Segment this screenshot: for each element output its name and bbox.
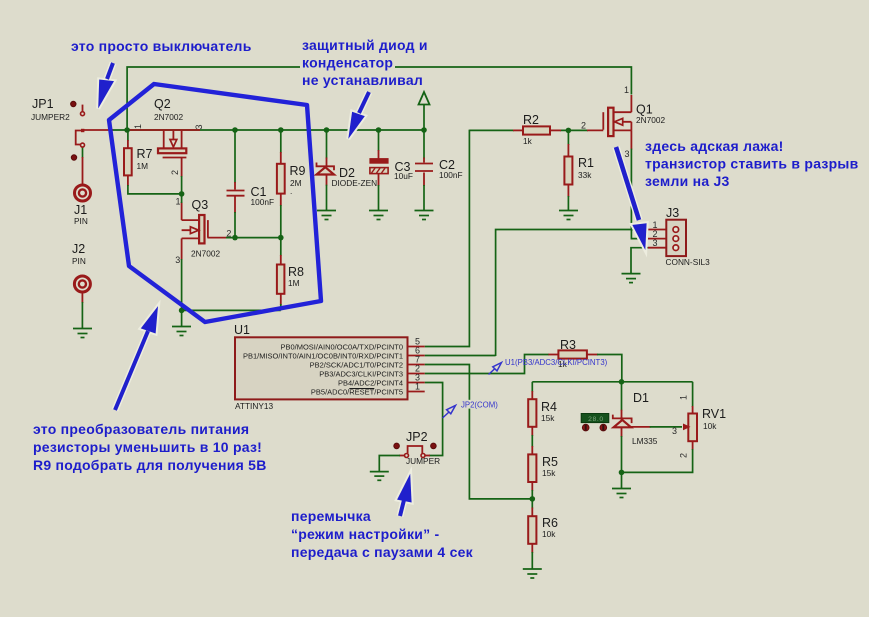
- resistor R5: [528, 454, 536, 482]
- wire: PB2 net down to R5/R6 node: [425, 365, 532, 499]
- wire: PB4 net to JP2: [425, 383, 443, 456]
- svg-text:R2: R2: [523, 113, 539, 127]
- svg-text:JUMPER: JUMPER: [406, 456, 440, 466]
- wire: R9 bottom to R8 top: [280, 194, 282, 206]
- svg-text:3: 3: [672, 426, 677, 436]
- transistor Q1 (2N7002, vertical): [603, 108, 631, 136]
- ground (C3): [369, 211, 388, 220]
- wire: bus from R2 right to Q1 gate: [560, 129, 588, 131]
- svg-text:защитный диод и: защитный диод и: [302, 37, 428, 53]
- svg-text:конденсатор: конденсатор: [302, 55, 393, 71]
- svg-text:1: 1: [679, 395, 689, 400]
- ground (J2): [73, 329, 92, 338]
- callout arrow (JP2 COM): [443, 405, 456, 418]
- wire: R2 left stub: [513, 129, 523, 131]
- wire: R1 top stub: [567, 130, 569, 145]
- wire: JP2 left terminal to ground: [399, 455, 406, 457]
- wire: D1 output to RV1 wiper: [629, 426, 651, 428]
- svg-text:1: 1: [415, 382, 420, 392]
- svg-text:2N7002: 2N7002: [191, 249, 220, 259]
- svg-text:2N7002: 2N7002: [154, 112, 183, 122]
- svg-text:100nF: 100nF: [439, 170, 463, 180]
- svg-text:2: 2: [226, 229, 231, 239]
- svg-text:не устанавливал: не устанавливал: [302, 72, 423, 88]
- junction node C2/VCC arrow/bus: [421, 127, 427, 133]
- wire: J2 to ground: [81, 292, 83, 303]
- power VCC arrow: [419, 92, 430, 105]
- transistor Q2 (2N7002, horizontal): [158, 130, 186, 158]
- capacitor C3 (electrolytic): [370, 159, 388, 174]
- ground (Q3 source bus): [172, 327, 191, 336]
- capacitor C2: [415, 164, 433, 172]
- wire: node F to R6 top: [531, 499, 533, 509]
- junction node R1/bus: [566, 128, 572, 134]
- wire: R4 top stub: [531, 382, 533, 392]
- wire: JP2 right terminal stub: [424, 455, 430, 457]
- junction node B (R7/Q2 gate/Q3 drain): [179, 191, 185, 197]
- svg-text:3: 3: [653, 238, 658, 248]
- wire: node G to ground: [621, 472, 623, 489]
- svg-text:1: 1: [133, 124, 143, 129]
- wire: R6 bottom to ground: [531, 544, 533, 553]
- svg-text:PIN: PIN: [74, 216, 88, 226]
- wire: R4 bottom to R5 top: [531, 427, 533, 436]
- wire: R1 bottom stub to ground: [567, 185, 569, 197]
- svg-text:передача с паузами 4 сек: передача с паузами 4 сек: [291, 544, 474, 560]
- wire: RV1 bottom to node G: [692, 441, 694, 450]
- svg-text:R6: R6: [542, 516, 558, 530]
- svg-text:R1: R1: [578, 156, 594, 170]
- pin J2: [74, 276, 90, 292]
- svg-text:это просто выключатель: это просто выключатель: [71, 38, 252, 54]
- svg-text:JP2(COM): JP2(COM): [461, 401, 498, 410]
- ground (JP2): [370, 472, 389, 481]
- junction node at x=127 y=130: [124, 127, 130, 133]
- resistor R6: [528, 516, 536, 544]
- callout arrow (U1 PB3): [489, 363, 502, 375]
- connector J3 (CONN-SIL3): [648, 220, 686, 256]
- potentiometer RV1: [683, 414, 697, 442]
- svg-text:R7: R7: [137, 147, 153, 161]
- wire: R7 bottom to node B: [127, 175, 129, 186]
- svg-text:резисторы уменьшить в 10 раз!: резисторы уменьшить в 10 раз!: [33, 439, 262, 455]
- wire: Q2 gate lead down to node B: [181, 158, 183, 178]
- wire: C3 vertical: [378, 131, 380, 151]
- resistor R7: [124, 148, 132, 175]
- svg-text:1: 1: [176, 197, 181, 207]
- wire: J3 pin3 to ground: [631, 248, 648, 274]
- svg-text:1M: 1M: [288, 278, 300, 288]
- resistor R9: [277, 164, 285, 194]
- svg-text:100nF: 100nF: [251, 197, 275, 207]
- svg-text:3: 3: [194, 124, 204, 129]
- junction node C1/bus: [232, 127, 238, 133]
- wire: main VCC bus y=130: [111, 129, 424, 131]
- svg-text:R3: R3: [560, 338, 576, 352]
- wire: RV1 top stub: [692, 382, 694, 407]
- wire: R8 bottom stub: [280, 294, 282, 305]
- svg-text:U1: U1: [234, 323, 250, 337]
- transistor Q3 (2N7002, mirrored vertical): [182, 215, 208, 243]
- svg-text:.: .: [290, 186, 292, 196]
- wire: D1 bottom to node G: [621, 417, 623, 437]
- capacitor C1: [227, 191, 245, 196]
- svg-text:Q2: Q2: [154, 97, 171, 111]
- svg-text:R4: R4: [541, 400, 557, 414]
- wire: PB0 riser x=469.4: [425, 130, 470, 347]
- junction node C (C1/Q3 gate net): [232, 235, 238, 241]
- svg-text:10k: 10k: [542, 529, 556, 539]
- ground (D1/RV1): [612, 489, 631, 498]
- net callout label JP2(COM): [459, 400, 497, 409]
- wire: R5 bottom to node F: [531, 482, 533, 491]
- svg-text:ATTINY13: ATTINY13: [235, 401, 273, 411]
- svg-text:2: 2: [581, 120, 586, 130]
- svg-text:28.0: 28.0: [588, 416, 604, 423]
- svg-text:PB4/ADC2/PCINT4: PB4/ADC2/PCINT4: [338, 379, 403, 388]
- resistor R8: [277, 265, 285, 294]
- svg-text:CONN-SIL3: CONN-SIL3: [666, 257, 711, 267]
- svg-text:LM335: LM335: [632, 436, 658, 446]
- wire: J3 pin1 net from PB1 riser: [496, 230, 648, 357]
- svg-text:JUMPER2: JUMPER2: [31, 112, 70, 122]
- op-amp U1 box (ATTINY13): [235, 337, 425, 399]
- wire: PB3 net to R3: [425, 355, 549, 374]
- wire: top horizontal net from node A to Q1 drain: [127, 67, 631, 130]
- junction node R9/bus: [278, 127, 284, 133]
- svg-text:2: 2: [679, 453, 689, 458]
- svg-text:15k: 15k: [542, 468, 556, 478]
- svg-text:33k: 33k: [578, 170, 592, 180]
- wire: R3 right stub and drop to node E: [587, 354, 598, 356]
- ground (D2): [317, 211, 336, 220]
- svg-text:PB0/MOSI/AIN0/OC0A/TXD/PCINT0: PB0/MOSI/AIN0/OC0A/TXD/PCINT0: [280, 343, 403, 352]
- svg-text:3: 3: [625, 149, 630, 159]
- svg-text:“режим настройки” -: “режим настройки” -: [291, 526, 440, 542]
- pin J1: [75, 185, 91, 201]
- blue highlight polygon around converter subcircuit: [109, 84, 321, 322]
- resistor R3 (horizontal): [558, 350, 587, 358]
- wire: VCC arrow stub and C2 vertical: [423, 105, 425, 159]
- annotation arrow to converter polygon: [115, 306, 158, 410]
- svg-text:DIODE-ZEN: DIODE-ZEN: [332, 178, 378, 188]
- junction: Q3 source / ground bus: [179, 308, 185, 314]
- svg-text:R8: R8: [288, 265, 304, 279]
- resistor R1: [564, 157, 572, 185]
- wire: R3 left stub: [548, 354, 559, 356]
- wire: D2 vertical: [326, 131, 328, 159]
- wire: PB0 riser corner to R2: [469, 129, 514, 131]
- svg-text:2: 2: [170, 170, 180, 175]
- svg-text:10uF: 10uF: [394, 171, 413, 181]
- wire: Q1 drain red riser: [630, 95, 632, 112]
- svg-text:J3: J3: [666, 206, 679, 220]
- svg-text:J2: J2: [72, 242, 85, 256]
- wire: R9 top stub: [280, 131, 282, 153]
- svg-text:10k: 10k: [703, 421, 717, 431]
- svg-text:U1(PB3/ADC3/CLKI/PCINT3): U1(PB3/ADC3/CLKI/PCINT3): [505, 358, 608, 367]
- wire: divider top bus y=381.8: [532, 381, 692, 383]
- annotation arrow to J3: [616, 147, 647, 250]
- svg-text:R5: R5: [542, 455, 558, 469]
- resistor R4: [528, 399, 536, 427]
- wire: D1 top from node E: [621, 382, 623, 411]
- svg-text:это преобразователь питания: это преобразователь питания: [33, 421, 249, 437]
- wire: Q3 gate lead right: [207, 237, 227, 239]
- jumper JP1: [71, 101, 85, 160]
- junction node C3/bus: [376, 127, 382, 133]
- annotation arrow to JP1: [98, 63, 114, 109]
- wire: R7 top stub: [127, 131, 129, 141]
- ground (C2): [415, 211, 434, 220]
- svg-text:PB3/ADC3/CLKI/PCINT3: PB3/ADC3/CLKI/PCINT3: [319, 370, 403, 379]
- svg-text:R9 подобрать для получения 5В: R9 подобрать для получения 5В: [33, 457, 267, 473]
- svg-text:здесь адская лажа!: здесь адская лажа!: [645, 138, 784, 154]
- wire: Q1 source down to J3 pin2: [630, 130, 632, 149]
- junction node E (R3 output / divider top bus): [619, 379, 625, 385]
- wire: ground bus y=310.4 from Q3 to R8: [182, 309, 281, 311]
- svg-text:J1: J1: [74, 203, 87, 217]
- svg-text:PIN: PIN: [72, 256, 86, 266]
- svg-text:PB2/SCK/ADC1/T0/PCINT2: PB2/SCK/ADC1/T0/PCINT2: [310, 361, 403, 370]
- junction node G (D1/RV1 bottom): [619, 470, 625, 476]
- display of D1 (temperature readout): [581, 414, 609, 431]
- svg-text:земли на J3: земли на J3: [645, 173, 730, 189]
- svg-text:15k: 15k: [541, 413, 555, 423]
- wire: R2 right stub: [550, 129, 561, 131]
- wire: JP1 to bus (red lead): [83, 129, 113, 131]
- annotation arrow to D2 area: [348, 92, 369, 139]
- svg-text:2N7002: 2N7002: [636, 115, 665, 125]
- jumper JP2: [394, 443, 436, 457]
- svg-text:1M: 1M: [137, 161, 149, 171]
- svg-text:JP1: JP1: [32, 97, 54, 111]
- wire: C1 bottom to node C: [234, 197, 236, 214]
- overline for RESET (PB5): [349, 388, 374, 390]
- wire: PB1 stub to riser: [425, 355, 496, 357]
- svg-text:транзистор ставить в разрыв: транзистор ставить в разрыв: [645, 156, 859, 172]
- svg-text:перемычка: перемычка: [291, 508, 371, 524]
- wire: bus red segment across Q2 pins: [129, 129, 200, 131]
- svg-text:1: 1: [624, 85, 629, 95]
- diode D2 (zener): [317, 163, 335, 175]
- wire: C1 vertical top: [234, 131, 236, 183]
- annotation arrow to JP2: [397, 474, 412, 516]
- ground (R1): [559, 211, 578, 220]
- wire: Q3 source down to ground bus: [181, 238, 183, 260]
- ground (R6): [523, 569, 542, 578]
- junction node D (R9/R8 mid / Q3 gate): [278, 235, 284, 241]
- svg-text:R9: R9: [290, 164, 306, 178]
- svg-text:PB1/MISO/INT0/AIN1/OC0B/INT0/R: PB1/MISO/INT0/AIN1/OC0B/INT0/RXD/PCINT1: [243, 352, 403, 361]
- svg-text:1k: 1k: [523, 136, 533, 146]
- ground (J3 pin3): [622, 274, 641, 283]
- resistor R2 (horizontal): [523, 126, 550, 134]
- svg-text:JP2: JP2: [406, 430, 428, 444]
- wire: Q3 drain lead up to node B: [181, 202, 183, 220]
- svg-text:RV1: RV1: [702, 407, 726, 421]
- junction node F (R5/R6/PB2): [530, 496, 536, 502]
- wire: JP1 pin2 down to J1: [82, 147, 84, 158]
- svg-text:Q3: Q3: [192, 198, 209, 212]
- svg-text:D1: D1: [633, 391, 649, 405]
- diode D1 (LM335 sensor): [613, 415, 632, 428]
- svg-text:3: 3: [175, 255, 180, 265]
- junction node D2/bus: [324, 127, 330, 133]
- wire: Q1 gate lead red: [587, 129, 603, 131]
